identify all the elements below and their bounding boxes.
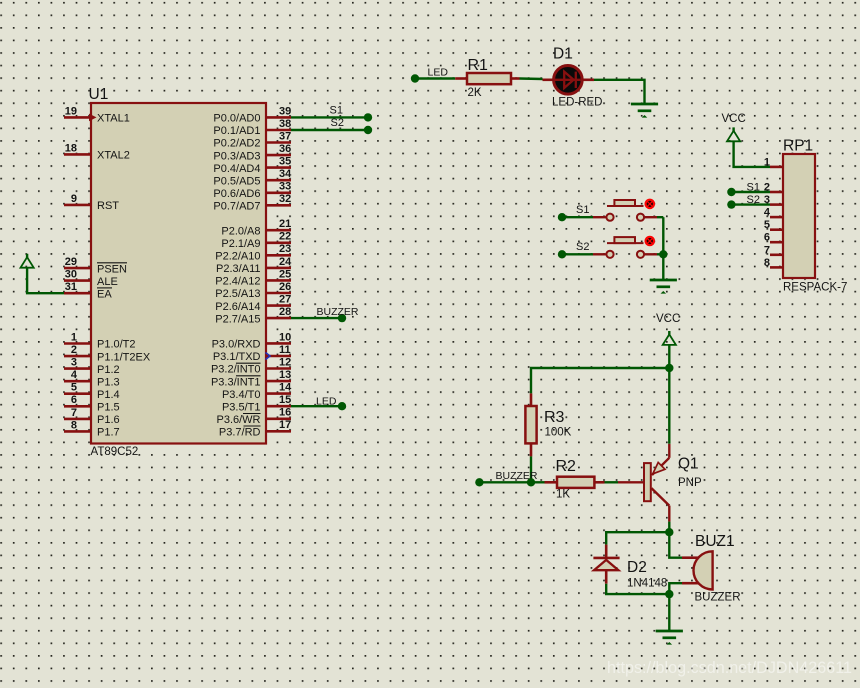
switch S2 (push button) — [558, 237, 664, 259]
node collector junction — [665, 528, 673, 536]
transistor Q1 base pin — [618, 481, 644, 483]
pin 38 (P0.1/AD1) — [213, 118, 291, 137]
svg-text:27: 27 — [279, 294, 291, 306]
wire P0.0 to node S1 — [291, 116, 368, 118]
wire Q1 collector down — [668, 522, 670, 533]
ground (D1) — [631, 103, 658, 106]
pin 22 (P2.1/A9) — [221, 231, 291, 250]
svg-text:7: 7 — [764, 244, 770, 256]
wire VCC to RP1 pin 1 — [734, 141, 770, 167]
diode D2 (1N4148) — [593, 558, 619, 570]
svg-text:1: 1 — [764, 156, 770, 168]
pin 32 (P0.7/AD7) — [213, 193, 291, 212]
wire collector junction to BUZ1 top — [669, 532, 682, 558]
svg-text:36: 36 — [279, 143, 291, 155]
pin 15 (P3.5/T1) — [222, 394, 291, 413]
svg-text:LED: LED — [316, 396, 337, 408]
wire junction to D2 cathode — [606, 532, 669, 544]
svg-text:P1.4: P1.4 — [97, 389, 120, 401]
pin 27 (P2.6/A14) — [215, 294, 291, 313]
wire VCC junction to Q1 emitter — [668, 368, 670, 444]
node LED (net label) — [411, 74, 419, 82]
wire R3 to base junction — [530, 456, 532, 482]
svg-text:S2: S2 — [331, 117, 344, 129]
svg-text:https://blog.csdn.net/DJDN4266: https://blog.csdn.net/DJDN426611 — [607, 659, 852, 677]
svg-text:3: 3 — [71, 357, 77, 369]
svg-text:P1.3: P1.3 — [97, 376, 120, 388]
svg-text:5: 5 — [71, 382, 77, 394]
svg-text:P0.7/AD7: P0.7/AD7 — [213, 201, 260, 213]
svg-text:PSEN: PSEN — [97, 263, 127, 275]
svg-text:PNP: PNP — [678, 477, 702, 489]
svg-text:1N4148: 1N4148 — [627, 578, 667, 590]
pin 3 (P1.2) — [64, 357, 120, 376]
svg-text:15: 15 — [279, 394, 291, 406]
svg-text:Q1: Q1 — [678, 456, 699, 473]
svg-text:39: 39 — [279, 105, 291, 117]
svg-text:8: 8 — [71, 419, 77, 431]
pin 6 (P1.5) — [64, 394, 120, 413]
svg-text:RESPACK-7: RESPACK-7 — [783, 282, 847, 294]
node BUZZER (U1 side) — [338, 314, 346, 322]
power symbol VCC (Q1) — [668, 331, 670, 335]
svg-text:U1: U1 — [89, 86, 109, 103]
node S1 — [364, 113, 372, 121]
RP1 pin 8 — [764, 257, 783, 269]
pin 26 (P2.5/A13) — [215, 281, 291, 300]
svg-text:7: 7 — [71, 407, 77, 419]
power symbol VCC (RP1) — [732, 127, 734, 131]
ground (buttons) — [650, 279, 677, 282]
svg-text:16: 16 — [279, 407, 291, 419]
svg-text:4: 4 — [71, 369, 78, 381]
svg-text:21: 21 — [279, 218, 291, 230]
buzzer BUZ1 bottom pin — [682, 582, 698, 585]
svg-text:S1: S1 — [330, 105, 343, 117]
svg-text:25: 25 — [279, 268, 291, 280]
pin 31 (EA) — [64, 281, 112, 300]
resistor R1 left pin — [455, 77, 467, 80]
buzzer BUZ1 body — [694, 551, 713, 589]
transistor Q1 (PNP) — [644, 444, 669, 522]
svg-text:P0.5/AD5: P0.5/AD5 — [213, 175, 260, 187]
LED D1 right pin — [583, 79, 595, 82]
LED D1 (LED-RED) — [554, 66, 583, 95]
pin 16 (P3.6/WR) — [216, 407, 291, 426]
switch S1 (push button) — [558, 200, 664, 222]
svg-text:12: 12 — [279, 356, 291, 368]
wire P0.1 to node S2 — [291, 129, 368, 131]
svg-text:5: 5 — [764, 219, 770, 231]
svg-text:D1: D1 — [553, 46, 573, 63]
svg-text:P0.2/AD2: P0.2/AD2 — [213, 138, 260, 150]
svg-text:LED-RED: LED-RED — [552, 97, 602, 109]
wire junction to R3 — [531, 368, 669, 393]
pin 23 (P2.2/A10) — [215, 243, 291, 262]
diode D2 anode pin — [605, 570, 608, 584]
svg-text:100K: 100K — [545, 427, 572, 439]
RP1 pin 1 — [764, 156, 783, 168]
LED D1 left pin — [543, 79, 554, 82]
pin 14 (P3.4/T0) — [222, 382, 292, 401]
pin 24 (P2.3/A11) — [216, 256, 292, 275]
svg-text:P1.7: P1.7 — [97, 427, 120, 439]
svg-text:ALE: ALE — [97, 276, 118, 288]
svg-text:22: 22 — [279, 231, 291, 243]
RP1 pin 7 — [764, 244, 783, 256]
pin 18 (XTAL2) — [64, 142, 130, 161]
svg-text:23: 23 — [279, 243, 291, 255]
svg-text:BUZZER: BUZZER — [695, 592, 741, 604]
svg-text:6: 6 — [71, 394, 77, 406]
wire node S1 to RP1 pin 2 — [731, 191, 770, 193]
pin 11 (P3.1/TXD) — [213, 344, 291, 363]
wire D1 to ground — [594, 80, 645, 104]
svg-text:R1: R1 — [468, 57, 489, 74]
svg-text:P2.2/A10: P2.2/A10 — [215, 251, 260, 263]
svg-text:11: 11 — [279, 344, 291, 356]
RP1 pin 4 — [764, 207, 783, 219]
svg-text:RP1: RP1 — [783, 138, 813, 155]
svg-text:BUZZER: BUZZER — [317, 306, 359, 318]
svg-text:VCC: VCC — [722, 113, 746, 125]
svg-text:P2.3/A11: P2.3/A11 — [216, 263, 260, 275]
pin 34 (P0.5/AD5) — [213, 168, 292, 187]
pin 5 (P1.4) — [64, 382, 120, 401]
pin 30 (ALE) — [64, 269, 118, 288]
svg-text:P2.6/A14: P2.6/A14 — [215, 301, 260, 313]
svg-text:S1: S1 — [576, 204, 589, 216]
wire BUZZER node to junction — [479, 481, 531, 483]
pin 21 (P2.0/A8) — [221, 218, 291, 237]
svg-text:P3.1/TXD: P3.1/TXD — [213, 351, 261, 363]
pin 35 (P0.4/AD4) — [213, 156, 291, 175]
pin 1 (P1.0/T2) — [64, 331, 136, 350]
RP1 pin 2 — [764, 182, 783, 194]
resistor R2 right pin — [594, 481, 604, 484]
svg-text:2K: 2K — [468, 87, 482, 99]
svg-text:29: 29 — [65, 256, 77, 268]
RP1 pin 6 — [764, 232, 783, 244]
node S2 — [364, 126, 372, 134]
svg-text:LED: LED — [428, 67, 449, 79]
svg-text:P0.6/AD6: P0.6/AD6 — [213, 188, 260, 200]
node S2 (RP1 side) — [727, 200, 735, 208]
wire D2 anode to junction — [606, 584, 669, 594]
pin 17 (P3.7/RD) — [219, 419, 291, 438]
svg-text:P1.1/T2EX: P1.1/T2EX — [97, 351, 151, 363]
svg-text:P1.5: P1.5 — [97, 402, 120, 414]
pin 37 (P0.2/AD2) — [213, 130, 291, 149]
svg-text:P3.4/T0: P3.4/T0 — [222, 389, 261, 401]
pin 13 (P3.3/INT1) — [211, 369, 291, 388]
resistor R1 right pin — [511, 77, 520, 80]
svg-text:10: 10 — [279, 331, 291, 343]
svg-text:34: 34 — [279, 168, 292, 180]
svg-text:32: 32 — [279, 193, 291, 205]
wire BUZ1 bottom to junction — [669, 583, 682, 594]
svg-text:P3.0/RXD: P3.0/RXD — [212, 339, 261, 351]
svg-text:37: 37 — [279, 130, 291, 142]
svg-text:R3: R3 — [544, 409, 565, 426]
pin 4 (P1.3) — [64, 369, 120, 388]
pin 10 (P3.0/RXD) — [212, 331, 292, 350]
node S1 (RP1 side) — [727, 188, 735, 196]
svg-text:AT89C52: AT89C52 — [91, 446, 139, 458]
RP1 pin 3 — [764, 194, 783, 206]
svg-text:19: 19 — [65, 105, 77, 117]
svg-text:P0.4/AD4: P0.4/AD4 — [213, 163, 260, 175]
svg-text:18: 18 — [65, 142, 77, 154]
wire junction to ground — [662, 254, 664, 280]
svg-text:1: 1 — [71, 331, 77, 343]
svg-text:31: 31 — [65, 281, 77, 293]
pin 25 (P2.4/A12) — [215, 268, 291, 287]
pin 2 (P1.1/T2EX) — [64, 344, 151, 363]
svg-text:24: 24 — [279, 256, 292, 268]
svg-text:8: 8 — [764, 257, 770, 269]
pin 39 (P0.0/AD0) — [213, 105, 291, 124]
svg-text:9: 9 — [71, 193, 77, 205]
svg-text:VCC: VCC — [656, 313, 680, 325]
svg-text:17: 17 — [279, 419, 291, 431]
svg-text:S2: S2 — [747, 194, 760, 206]
svg-text:33: 33 — [279, 181, 291, 193]
wire P3.5 to node LED — [291, 405, 342, 407]
svg-text:P2.5/A13: P2.5/A13 — [215, 288, 260, 300]
svg-text:28: 28 — [279, 306, 291, 318]
node VCC/R3 junction — [665, 364, 673, 372]
svg-text:RST: RST — [97, 200, 119, 212]
svg-text:6: 6 — [764, 232, 770, 244]
wire EA pin to power arrow — [27, 267, 64, 293]
svg-text:P2.4/A12: P2.4/A12 — [215, 276, 260, 288]
buzzer BUZ1 top pin — [682, 556, 698, 559]
resistor R2 left pin — [545, 481, 558, 484]
svg-text:P1.0/T2: P1.0/T2 — [97, 339, 136, 351]
pin 8 (P1.7) — [64, 419, 120, 438]
node R3/R2 junction — [527, 478, 535, 486]
svg-text:P3.6/WR: P3.6/WR — [216, 414, 260, 426]
svg-text:35: 35 — [279, 156, 291, 168]
svg-text:XTAL2: XTAL2 — [97, 150, 130, 162]
svg-text:13: 13 — [279, 369, 291, 381]
ground (BUZ1) — [656, 630, 683, 633]
resistor R2 body — [557, 477, 594, 488]
svg-text:P3.5/T1: P3.5/T1 — [222, 401, 261, 413]
svg-text:30: 30 — [65, 269, 77, 281]
wire P2.7 to node BUZZER — [291, 317, 342, 319]
pin 36 (P0.3/AD3) — [213, 143, 291, 162]
resistor R3 bottom pin — [530, 443, 533, 456]
svg-text:EA: EA — [97, 288, 112, 300]
svg-text:P0.3/AD3: P0.3/AD3 — [213, 150, 260, 162]
wire node S2 to RP1 pin 3 — [731, 203, 770, 205]
svg-text:R2: R2 — [556, 458, 577, 475]
svg-text:BUZ1: BUZ1 — [695, 533, 735, 550]
pin 29 (PSEN) — [64, 256, 127, 275]
node S1/S2 common junction — [659, 250, 667, 258]
svg-text:P3.3/INT1: P3.3/INT1 — [211, 376, 261, 388]
wire junction to ground — [668, 594, 670, 631]
svg-text:P1.2: P1.2 — [97, 364, 120, 376]
svg-text:1K: 1K — [556, 489, 570, 501]
power symbol VCC (EA pin) — [26, 254, 28, 258]
svg-text:P3.2/INT0: P3.2/INT0 — [211, 364, 261, 376]
pin 33 (P0.6/AD6) — [213, 181, 291, 200]
resistor R3 body — [525, 406, 536, 443]
svg-text:4: 4 — [764, 207, 771, 219]
svg-text:14: 14 — [279, 382, 292, 394]
wire R2 to Q1 base — [605, 481, 619, 483]
pin 7 (P1.6) — [64, 407, 120, 426]
wire R1 to D1 — [520, 77, 543, 80]
resistor R3 top pin — [530, 393, 533, 406]
node BUZZER (net label) — [475, 478, 483, 486]
diode D2 cathode pin — [605, 545, 608, 558]
pin 9 (RST) — [64, 193, 119, 212]
svg-text:38: 38 — [279, 118, 291, 130]
wire junction to R2 — [531, 481, 545, 483]
resistor R1 body — [467, 73, 511, 84]
wire VCC arrow to emitter junction — [668, 345, 670, 369]
pin 19 (XTAL1) — [64, 105, 130, 124]
svg-text:2: 2 — [71, 344, 77, 356]
svg-text:P2.0/A8: P2.0/A8 — [221, 225, 260, 237]
svg-text:D2: D2 — [627, 559, 647, 576]
svg-text:S2: S2 — [576, 241, 589, 253]
svg-text:P2.1/A9: P2.1/A9 — [221, 238, 260, 250]
IC U1 (AT89C52 microcontroller) body — [91, 103, 266, 444]
wire LED node to R1 — [415, 77, 455, 79]
svg-text:P3.7/RD: P3.7/RD — [219, 427, 261, 439]
node BUZ1/D2 junction — [665, 590, 673, 598]
pin 12 (P3.2/INT0) — [211, 356, 291, 375]
svg-text:26: 26 — [279, 281, 291, 293]
svg-text:P2.7/A15: P2.7/A15 — [215, 313, 260, 325]
svg-text:S1: S1 — [747, 181, 760, 193]
svg-text:P1.6: P1.6 — [97, 414, 120, 426]
pin 28 (P2.7/A15) — [215, 306, 291, 325]
svg-text:XTAL1: XTAL1 — [97, 113, 130, 125]
svg-text:P0.0/AD0: P0.0/AD0 — [213, 113, 260, 125]
wire S1 to S2 common — [662, 217, 664, 254]
RP1 pin 5 — [764, 219, 783, 231]
clock marker on XTAL1 pin — [89, 114, 97, 122]
resistor pack RP1 body — [783, 154, 815, 278]
blue probe marker at pin 11 (P3.1/TXD) — [266, 353, 271, 360]
svg-text:P0.1/AD1: P0.1/AD1 — [213, 125, 260, 137]
node LED (U1 side) — [338, 402, 346, 410]
